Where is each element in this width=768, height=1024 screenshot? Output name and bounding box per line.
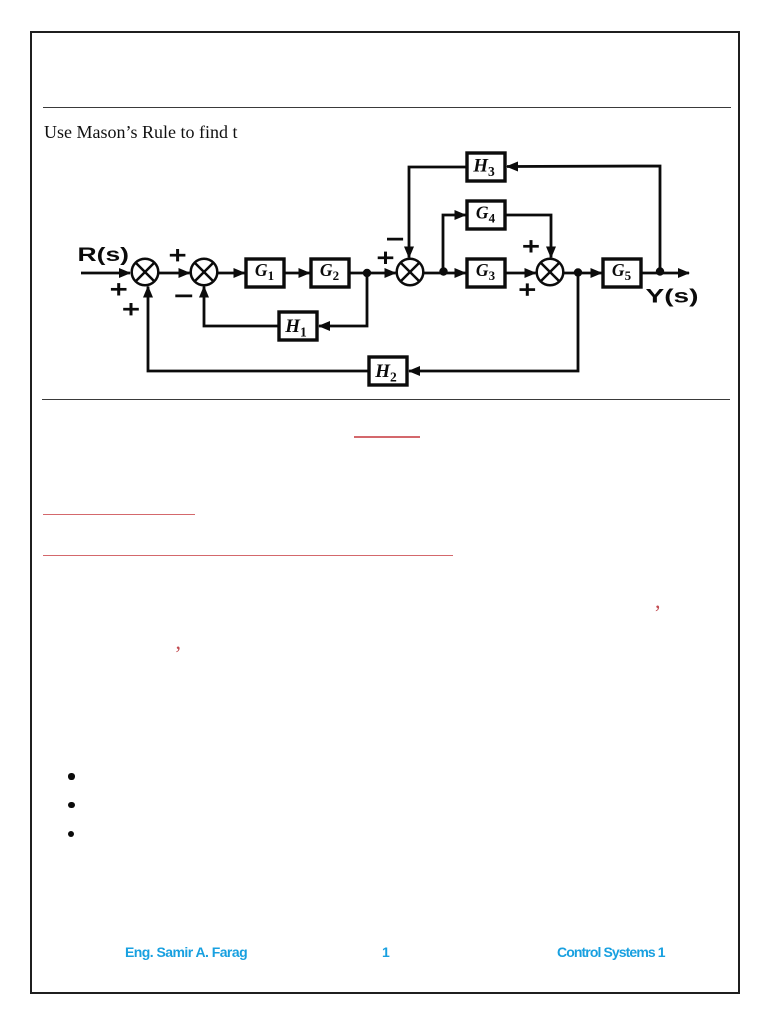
svg-text:Y(s): Y(s) [646, 286, 699, 308]
svg-text:R(s): R(s) [78, 244, 130, 266]
